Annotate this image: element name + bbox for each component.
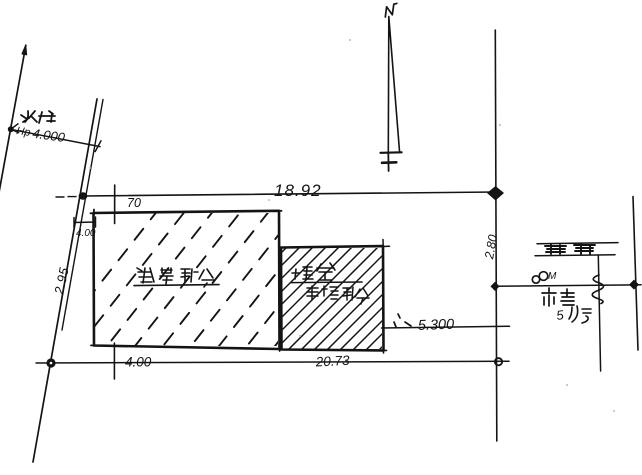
SE road ring node: [495, 358, 502, 365]
road label ruling bottom: [535, 255, 615, 256]
ditch dim right tick: [95, 141, 101, 152]
boundary line B east ditch edge (long): [33, 99, 97, 462]
svg-text:2.80: 2.80: [482, 234, 500, 261]
tick for 70 offset: [114, 185, 116, 224]
building 2 hatch (solid 45deg): [178, 241, 488, 356]
svg-text:M: M: [548, 271, 557, 282]
svg-text:4.000: 4.000: [32, 126, 67, 145]
north symbol triangle: [388, 17, 399, 153]
building 1 label 鉄骨部分 (squiggle): [137, 268, 214, 287]
svg-text:70: 70: [127, 196, 141, 210]
road east edge vertical line: [633, 197, 638, 351]
svg-text:20.73: 20.73: [314, 353, 350, 370]
north symbol tail: [387, 153, 389, 172]
boundary line B parallel second stroke: [62, 100, 103, 331]
text 市道 (squiggle): [542, 288, 574, 306]
NW offset dim 4.00 line with ticks: [74, 217, 96, 228]
building 1 hatch (dashed diagonals): [40, 205, 386, 360]
SW boundary ring node: [46, 358, 55, 367]
north symbol bar 2: [382, 161, 396, 164]
building 2 label underline: [291, 281, 362, 284]
ditch width dimension line: [11, 129, 101, 146]
building 2 outline 増築申請部分: [281, 246, 384, 351]
ditch dim arrow feather: [11, 124, 19, 133]
right road boundary vertical line: [495, 30, 497, 441]
therefore mark: [394, 314, 411, 327]
road break squiggle: [592, 275, 603, 304]
building 1 label underline: [134, 285, 219, 286]
north symbol bar 1: [381, 151, 402, 154]
text 水路 (squiggle): [21, 111, 55, 123]
node diamond east end of road line: [629, 280, 639, 290]
tick 4.00 south: [113, 343, 115, 379]
building 1 corner overshoots: [91, 210, 282, 352]
top dimension line 18.92: [83, 192, 496, 196]
building 2 corner overshoot NE: [383, 240, 390, 248]
dimension line 5.300: [382, 326, 510, 328]
boundary line A west ditch edge: [0, 46, 26, 199]
svg-text:18.92: 18.92: [274, 181, 322, 200]
svg-text:5: 5: [555, 307, 565, 323]
node diamond at top dim / road: [487, 186, 504, 201]
ditch dim left node dot: [8, 126, 14, 132]
arrowhead on boundary line A: [22, 45, 27, 56]
building 2 corner overshoot SE: [380, 346, 387, 353]
plot NW junction dot: [79, 192, 88, 199]
road centerline horizontal: [495, 285, 641, 287]
road label 道路 (smudged squiggle): [545, 244, 595, 254]
road label ruling top: [537, 243, 618, 244]
building 1 outline 鉄骨部分: [94, 211, 280, 349]
north symbol letter N: [385, 3, 397, 17]
bottom dimension line 20.73: [36, 361, 509, 363]
paper speckles: [89, 39, 615, 412]
building 2 label 申請部分 (squiggle): [307, 286, 369, 304]
node square west end of road line: [491, 282, 500, 291]
road west inner vertical line: [598, 256, 600, 372]
svg-text:4.00: 4.00: [125, 355, 152, 370]
svg-text:5.300: 5.300: [418, 317, 455, 334]
text 8M: [532, 272, 548, 283]
top dim dashed left extension: [56, 196, 76, 198]
svg-text:Hp: Hp: [16, 125, 32, 139]
building 2 label 増築 (squiggle): [292, 263, 335, 280]
